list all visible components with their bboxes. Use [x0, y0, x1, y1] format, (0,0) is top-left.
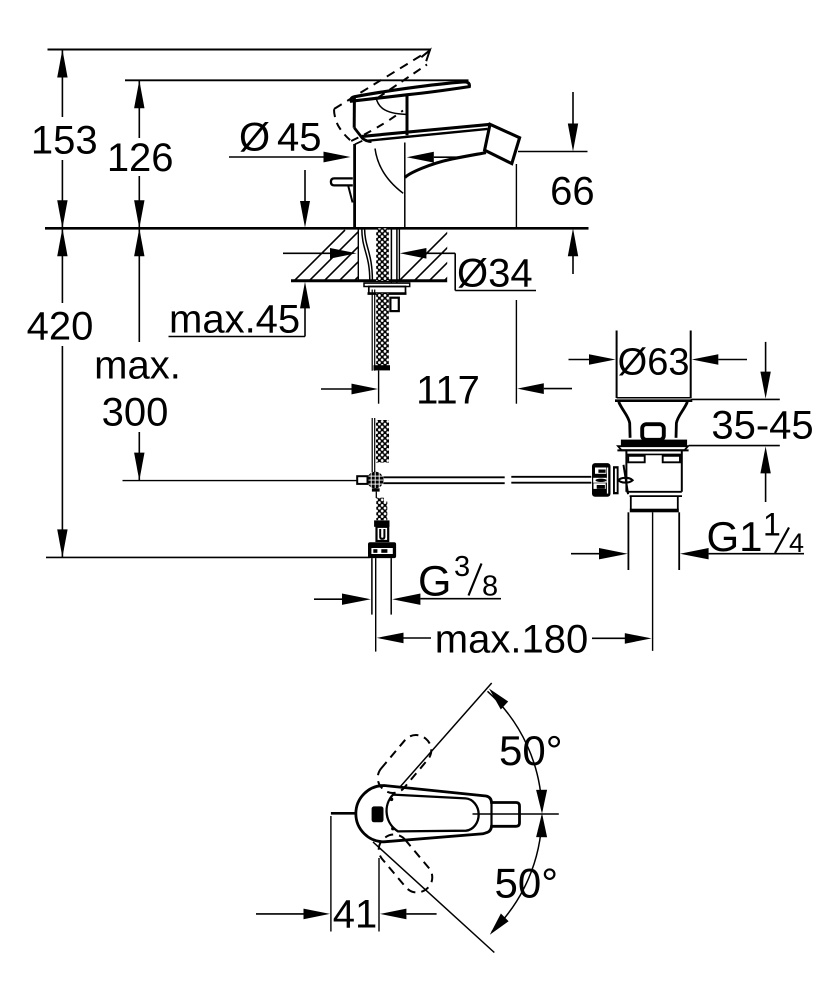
body left edge — [353, 97, 356, 127]
svg-text:50°: 50° — [499, 727, 563, 774]
spout underside — [405, 153, 486, 178]
handle outer outline (top view) — [356, 786, 520, 842]
dashed raised lever second edge — [378, 65, 428, 99]
threaded shank below deck — [376, 294, 389, 366]
50deg swing line lower — [373, 842, 494, 953]
svg-text:35-45: 35-45 — [711, 404, 813, 448]
ball joint — [367, 472, 384, 489]
handle neck step line — [490, 803, 492, 827]
pop-up knob strut — [348, 186, 352, 203]
connector block — [374, 520, 389, 526]
dimension Ø34 — [283, 248, 536, 296]
dashed raised lever top edge — [334, 54, 424, 109]
deck bottom line — [291, 279, 447, 282]
svg-text:153: 153 — [31, 119, 98, 163]
threaded rod lower section — [376, 420, 389, 463]
body slot left — [628, 456, 645, 463]
svg-text:50°: 50° — [495, 860, 559, 907]
supply pipe below nut — [371, 558, 373, 615]
svg-text:45: 45 — [277, 116, 322, 160]
connector bracket — [377, 527, 389, 541]
svg-text:3: 3 — [454, 551, 470, 583]
faucet body upper block — [331, 82, 520, 227]
dimension Ø45 — [229, 116, 462, 163]
pop-up rod below deck — [371, 290, 373, 371]
wire: top reference line (153 level) — [48, 49, 432, 51]
aerator tilted square — [485, 124, 520, 163]
svg-text:Ø34: Ø34 — [457, 252, 533, 296]
handle lever inner outline — [387, 795, 479, 832]
angle arc lower — [492, 816, 542, 931]
BOTTOM VIEW GROUP — [256, 683, 563, 953]
retaining clip on shank — [390, 298, 398, 311]
dimension max.180 — [377, 618, 652, 662]
pop-up rod S-curve through deck — [362, 228, 370, 280]
svg-text:max.: max. — [94, 344, 181, 388]
dimension 420 — [27, 228, 370, 557]
plug body (Ø63) — [616, 331, 618, 399]
flange — [618, 446, 688, 450]
cartridge curve — [376, 97, 406, 115]
seal band — [621, 440, 687, 447]
svg-text:Ø63: Ø63 — [618, 342, 690, 384]
pop-up rod lower section — [371, 418, 373, 472]
valve stem — [642, 424, 664, 440]
lower body right edge — [404, 143, 406, 228]
svg-text:126: 126 — [107, 136, 174, 180]
dimension Ø63 — [569, 342, 748, 384]
svg-text:Ø: Ø — [239, 116, 270, 160]
centre line right — [473, 813, 559, 815]
dimension max.300 — [94, 228, 357, 480]
dimension 41 — [256, 816, 437, 937]
rod end cap left of ball — [357, 476, 367, 484]
deck hatch left — [280, 230, 420, 295]
angle arc upper — [488, 691, 542, 810]
body left lower diagonal — [354, 128, 371, 142]
svg-text:4: 4 — [789, 528, 804, 558]
extension line below shank (117 ref) — [378, 370, 380, 403]
dimension 66 — [518, 92, 595, 274]
spout root curve — [375, 149, 403, 194]
dashed handle position lower — [373, 829, 438, 899]
svg-text:300: 300 — [102, 390, 169, 434]
deck hole left edge — [357, 228, 359, 280]
deck hatch right — [385, 230, 510, 295]
deck hole right edge — [398, 228, 400, 280]
dashed raised lever butt — [334, 109, 351, 141]
pivot rod eye — [618, 478, 632, 483]
svg-text:8: 8 — [482, 571, 498, 603]
dashed raised lever arrow — [421, 50, 430, 61]
lower body step — [355, 141, 363, 145]
dashed raised lever underside — [351, 111, 403, 142]
handle logo spot — [372, 806, 384, 822]
svg-text:420: 420 — [27, 305, 94, 349]
handle detail dot lower — [391, 827, 395, 831]
DRAIN ASSEMBLY — [592, 331, 692, 651]
handle detail dot upper — [390, 798, 394, 802]
threaded shank through deck — [376, 228, 389, 280]
lower body left edge — [353, 144, 356, 227]
waste body — [625, 450, 627, 491]
dimension G1 1/4 — [571, 507, 804, 561]
horizontal pop-up actuating rod — [383, 477, 591, 483]
tailpipe — [627, 512, 629, 570]
body back edge — [406, 96, 409, 136]
svg-text:41: 41 — [333, 893, 378, 937]
mounting nut below deck — [369, 287, 406, 294]
faucet centre line lower — [375, 558, 377, 652]
wire: reference line (126 level / lever tip) — [125, 79, 469, 81]
deck top line — [45, 227, 589, 230]
svg-text:max.180: max.180 — [435, 618, 588, 662]
SIDE VIEW GROUP — [27, 50, 814, 662]
G3/8 union nut — [368, 542, 396, 558]
dashed handle position upper — [372, 729, 437, 799]
drain centre line — [652, 512, 654, 651]
body bottom lines — [626, 491, 681, 493]
pop-up knob on body — [331, 178, 353, 185]
svg-text:G1: G1 — [707, 513, 763, 560]
spout top edge — [362, 124, 490, 136]
dimension G3/8 — [314, 551, 501, 606]
mounting washer below deck — [364, 283, 410, 286]
dimension 35-45 — [689, 342, 814, 502]
svg-text:117: 117 — [416, 369, 480, 413]
shank rod end cap — [374, 365, 391, 370]
fastener below ball — [372, 488, 380, 491]
dimension 153 — [31, 50, 98, 229]
trumpet right profile — [676, 402, 687, 438]
lever — [351, 82, 470, 101]
body slot right — [663, 456, 680, 463]
svg-text:66: 66 — [550, 170, 595, 214]
threaded rod above connector — [376, 498, 387, 521]
dimension 117 — [321, 164, 572, 413]
pivot diagonal — [624, 465, 629, 494]
svg-text:max.45: max.45 — [169, 298, 300, 342]
svg-text:G: G — [418, 558, 451, 606]
trumpet left profile — [619, 402, 630, 438]
knurled adjuster knob — [592, 463, 619, 497]
50deg swing line upper — [400, 683, 492, 787]
dimension max.45 — [169, 170, 311, 342]
waste neck — [630, 496, 632, 509]
supply pipe lines in deck — [390, 228, 392, 283]
spout top inner edge — [366, 129, 488, 141]
dimension 126 — [107, 80, 174, 228]
pin left of handle — [331, 812, 356, 815]
svg-text:1: 1 — [763, 507, 781, 543]
